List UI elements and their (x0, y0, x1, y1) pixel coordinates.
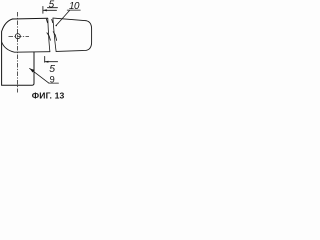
label 10 underline (shelf) (67, 9, 80, 11)
bottom dimension 5: arrow line (45, 61, 58, 63)
leader 9 arrowhead (30, 68, 35, 72)
slit line A middle barb (47, 33, 51, 40)
leader line for 9 (30, 68, 49, 83)
bar right rounded end (56, 21, 92, 52)
slit break line B (53, 18, 56, 51)
bar top edge left segment (13, 17, 48, 20)
bottom dimension 5: extension tick (44, 56, 46, 62)
slit break line A (48, 18, 50, 51)
label 9 shelf (49, 82, 59, 84)
bar top edge right segment (53, 18, 86, 21)
hole center mark circle (15, 34, 20, 39)
bottom dimension 5: arrowhead (45, 61, 49, 63)
slit line B top barb (52, 19, 53, 22)
top dimension 5: extension tick (42, 6, 44, 13)
bar bottom edge left segment with fillet to left edge (2, 42, 50, 52)
svg-text:5: 5 (49, 0, 55, 10)
svg-text:5: 5 (49, 64, 55, 75)
top dimension 5: arrow line (43, 9, 57, 11)
top dimension 5: arrowhead (43, 9, 47, 11)
slit line B middle barb (53, 32, 56, 41)
leader line for 10 (56, 11, 69, 26)
vertical centerline (17, 12, 19, 93)
svg-text:10: 10 (69, 1, 80, 12)
top label 5 underline (shelf) (47, 7, 57, 9)
leader 10 end dot (56, 25, 57, 26)
bar 10: left body outline with block 9 (2, 19, 34, 85)
slit line A top barb (46, 19, 47, 23)
svg-text:ФИГ. 13: ФИГ. 13 (32, 91, 65, 101)
horizontal centerline (9, 36, 30, 38)
svg-text:9: 9 (50, 75, 55, 85)
